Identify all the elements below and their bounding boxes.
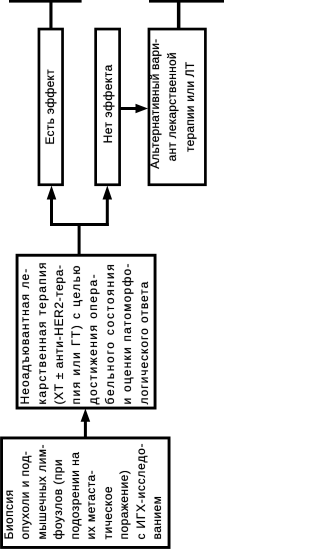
wire: horizontal stem from Нет эффекта to Альтернативный xyxy=(119,107,137,110)
wire: top-right horizontal line (bottom edge of off-screen box) xyxy=(149,0,224,3)
box 3: Альтернативный вариант xyxy=(149,29,205,185)
wire: fork horizontal bar xyxy=(50,223,109,226)
arrowhead: up into box Неоадъювантная xyxy=(81,409,91,422)
wire: center stem from fork down to box Неоадъювантная xyxy=(78,224,81,255)
text box 1: Есть эффект xyxy=(39,30,60,184)
box 5: Биопсия xyxy=(2,438,170,548)
wire: right fork stem xyxy=(106,198,109,226)
wire: left fork stem xyxy=(50,198,53,226)
arrowhead: up into box Нет эффекта xyxy=(103,186,113,200)
wire: stem from box Альтернативный up to top-right line xyxy=(177,0,181,29)
box 2: Нет эффекта xyxy=(96,29,120,185)
wire: stem from box Биопсия up to arrowhead xyxy=(84,420,87,439)
arrowhead: right into box Альтернативный xyxy=(136,104,149,114)
box 4: Неоадъювантная терапия xyxy=(17,255,155,408)
box 1: Есть эффект xyxy=(39,29,63,185)
text box 5: Биопсия xyxy=(1,433,166,547)
text box 3: Альтернативный вариант xyxy=(146,30,200,184)
arrowhead: up into box Есть эффект xyxy=(47,186,57,200)
wire: top-left horizontal line (bottom edge of off-screen box) xyxy=(9,0,82,3)
wire: stem from box Есть эффект up to top-left line xyxy=(49,0,52,29)
text box 2: Нет эффекта xyxy=(97,27,118,184)
text box 4: Неоадъювантная терапия xyxy=(17,255,152,407)
